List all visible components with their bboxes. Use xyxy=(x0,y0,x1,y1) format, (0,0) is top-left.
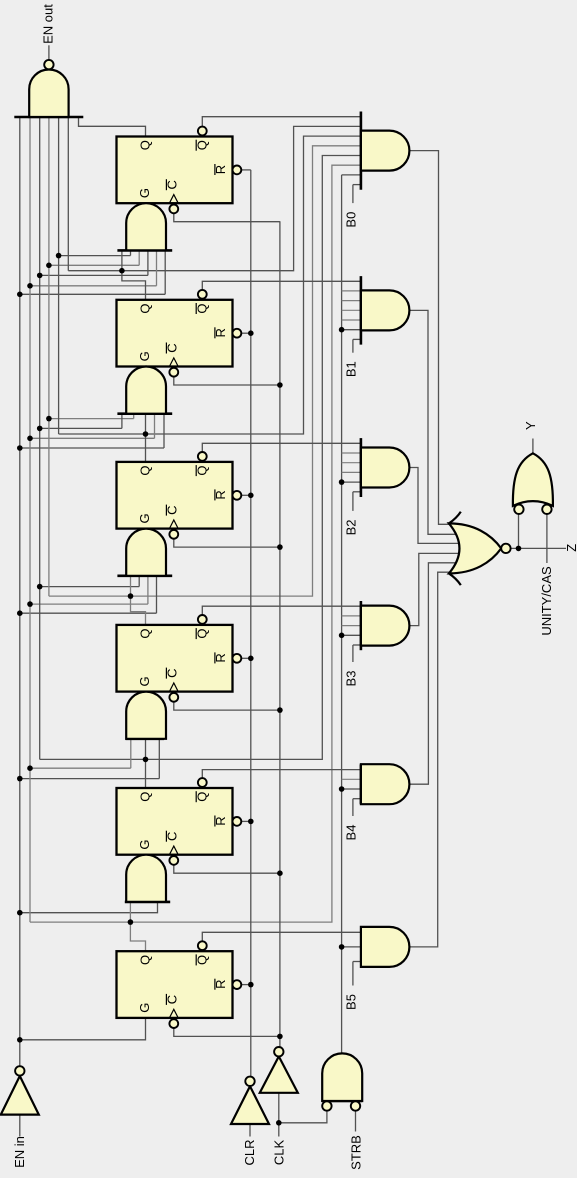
AND gate A3 (drives G of FF3) xyxy=(117,529,172,576)
node B1 label wire xyxy=(353,339,361,352)
svg-text:EN out: EN out xyxy=(41,4,56,44)
svg-text:EN in: EN in xyxy=(12,1136,27,1168)
svg-text:B4: B4 xyxy=(343,825,358,841)
wire CLK input + STRB gate left input xyxy=(279,1093,327,1137)
inverter V1 (EN in) xyxy=(1,1066,39,1114)
wire B1 gate output to NOR xyxy=(409,310,458,534)
NOR gate U2 (6-input, output Z) xyxy=(449,512,511,585)
AND gate B1 (rate input gate) xyxy=(361,276,410,345)
svg-text:CLK: CLK xyxy=(272,1140,287,1166)
svg-text:Q: Q xyxy=(138,955,153,965)
svg-text:Q: Q xyxy=(138,466,153,476)
wire B0 gate output to NOR xyxy=(409,151,458,525)
wire Q4 net xyxy=(49,117,361,625)
wire AND3 input drops xyxy=(139,576,156,613)
wire EN net (inverted EN in, left vertical) xyxy=(20,117,165,1066)
AND gate A2 (drives G of FF2) xyxy=(117,367,172,414)
svg-text:B3: B3 xyxy=(343,671,358,687)
wire Q5 net xyxy=(40,117,361,788)
svg-text:Q: Q xyxy=(138,792,153,802)
node B0 label wire xyxy=(353,185,361,204)
inverter V2 (CLR) xyxy=(231,1077,269,1124)
junction dots on CLK net xyxy=(276,382,283,1125)
wire Q-bar of FF6 to B5 gate xyxy=(202,932,361,941)
svg-text:Z: Z xyxy=(564,544,577,552)
junction dots on Q3 net xyxy=(56,253,149,437)
flip-flop FF4 (gated latch, pins G C Q Qbar R) xyxy=(117,615,242,702)
svg-text:Y: Y xyxy=(523,421,538,430)
svg-text:G: G xyxy=(137,188,152,198)
wire STRB net xyxy=(342,175,361,1054)
wire Z output net xyxy=(511,514,566,549)
wire CLR input xyxy=(249,1124,251,1137)
flip-flop FF6 (gated latch, pins G C Q Qbar R) xyxy=(117,941,242,1028)
wire B5 gate output to NOR xyxy=(409,572,458,947)
AND gate U4 with inverted inputs (STRB strobe) xyxy=(322,1053,362,1110)
wire UNITY/CAS net xyxy=(546,514,548,563)
junction dots on EN net xyxy=(17,292,23,1043)
svg-text:B5: B5 xyxy=(343,994,358,1010)
flip-flop FF5 (gated latch, pins G C Q Qbar R) xyxy=(117,778,242,865)
svg-text:G: G xyxy=(137,513,152,523)
svg-text:B0: B0 xyxy=(343,212,358,228)
svg-text:Q: Q xyxy=(138,629,153,639)
junction dots on Q5 net xyxy=(37,273,148,763)
svg-text:Q: Q xyxy=(138,140,153,150)
wire EN in input xyxy=(19,1115,21,1137)
junction dot on Z net xyxy=(516,546,522,552)
wire AND1 input drops xyxy=(131,250,166,294)
wire Y output xyxy=(532,439,534,454)
wire Q-bar of FF4 to B3 gate xyxy=(202,606,361,615)
svg-text:G: G xyxy=(137,1003,152,1013)
wire CLR net xyxy=(242,170,251,1077)
wire B4 gate output to NOR xyxy=(409,563,458,784)
flip-flop FF3 (gated latch, pins G C Q Qbar R) xyxy=(117,452,242,539)
svg-text:UNITY/CAS: UNITY/CAS xyxy=(539,566,554,636)
wire Q2 net xyxy=(68,117,361,300)
AND gate A5 (drives G of FF5) xyxy=(125,855,170,902)
wire B3 gate output to NOR xyxy=(409,553,458,625)
junction dot on Q2 net xyxy=(119,268,125,274)
node B5 label wire xyxy=(353,962,361,986)
svg-text:B1: B1 xyxy=(343,361,358,377)
flip-flop FF2 (gated latch, pins G C Q Qbar R) xyxy=(117,290,242,377)
wire Q6 net xyxy=(30,117,361,951)
AND gate A4 (drives G of FF4) xyxy=(126,692,166,739)
AND gate A1 (drives G of FF1) xyxy=(117,203,172,250)
svg-text:Q: Q xyxy=(138,303,153,313)
wire CLK net xyxy=(174,213,280,1047)
node B2 label wire xyxy=(353,492,361,511)
OR gate U3 with inverted inputs (output Y) xyxy=(513,453,553,514)
AND gate B2 (rate input gate) xyxy=(361,438,410,497)
wire B-gate unconnected pin stubs xyxy=(342,291,361,779)
junction dots on STRB net xyxy=(339,327,345,950)
wire Q-bar of FF5 to B4 gate xyxy=(202,770,361,779)
NAND gate U1 (EN out, 7-input) xyxy=(14,60,83,117)
node B4 label wire xyxy=(353,799,361,816)
svg-text:B2: B2 xyxy=(343,519,358,535)
wire EN out xyxy=(48,45,50,59)
wire B2 gate output to NOR xyxy=(409,468,458,544)
AND gate B5 (rate input gate) xyxy=(361,927,410,967)
flip-flop FF1 (gated latch, pins G C Q Qbar R) xyxy=(117,127,242,214)
wire Q-bar of FF1 to B0 gate xyxy=(202,117,361,127)
AND gate B3 (rate input gate) xyxy=(361,601,410,650)
wire STRB input xyxy=(355,1111,357,1132)
wire Q3 net xyxy=(59,117,361,462)
wire Q-bar of FF2 to B1 gate xyxy=(202,281,361,290)
wire AND4 input drops xyxy=(131,739,160,779)
wire Q-bar of FF3 to B2 gate xyxy=(202,443,361,452)
svg-text:CLR: CLR xyxy=(242,1139,257,1165)
wire Q1 (FF1 Q to NAND) xyxy=(79,117,146,137)
svg-text:G: G xyxy=(137,351,152,361)
node B3 label wire xyxy=(353,645,361,662)
junction dots on Q6 net xyxy=(27,283,133,925)
svg-text:G: G xyxy=(137,839,152,849)
AND gate B0 (rate input gate) xyxy=(361,112,410,190)
inverter V3 (CLK) xyxy=(260,1047,298,1093)
junction dots on CLR net xyxy=(248,330,254,987)
svg-text:G: G xyxy=(137,676,152,686)
AND gate B4 (rate input gate) xyxy=(361,764,410,804)
junction dots on Q4 net xyxy=(46,263,133,599)
wire AND2 input drops xyxy=(122,414,164,448)
svg-text:STRB: STRB xyxy=(349,1135,364,1170)
